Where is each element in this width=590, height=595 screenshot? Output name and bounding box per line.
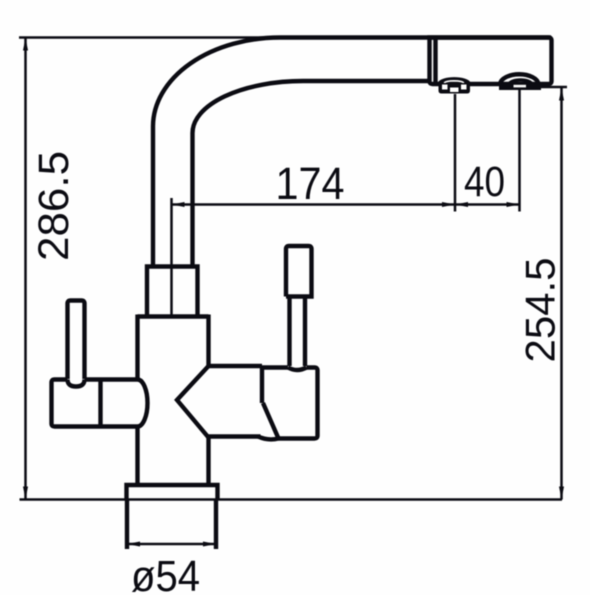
arrow 174 left — [172, 202, 185, 207]
left lever rounded tip notch — [68, 380, 85, 387]
spout inner profile: riser right edge, inner bend arc, spout underside line — [193, 81, 430, 267]
svg-text:254.5: 254.5 — [517, 258, 564, 363]
arrow 254.5 top (up) — [559, 88, 564, 101]
right handle neck notch arc — [288, 368, 307, 371]
right lever knob — [286, 246, 312, 297]
svg-text:174: 174 — [276, 158, 345, 209]
body column right edge (lower, below right handle) — [206, 437, 210, 486]
large aerator outer dome — [500, 74, 539, 84]
right handle connector bottom edge — [209, 434, 261, 438]
left lever handle stick — [68, 301, 85, 380]
large aerator base bar (filled) — [499, 84, 541, 91]
left handle rounded end cap arc — [138, 380, 148, 427]
mounting plane baseline — [20, 498, 563, 501]
dimension arrowheads — [23, 38, 564, 547]
left handle body block — [52, 380, 138, 427]
right top extension line from large aerator — [541, 86, 568, 89]
base flange — [127, 485, 218, 500]
arrow 40 right — [507, 202, 520, 207]
arrow o54 right — [203, 542, 216, 547]
collar below riser tube — [147, 267, 198, 316]
right handle base bottom-left arc — [258, 437, 279, 440]
dimension line 286.5 — [24, 38, 27, 500]
extension line from large aerator for 40 — [518, 90, 521, 212]
dimension line 254.5 — [560, 88, 563, 500]
body column right edge (upper, above right handle) — [206, 315, 210, 367]
right handle base piece outline — [262, 368, 318, 439]
right handle joint line — [260, 366, 264, 403]
threaded shank below mounting plane — [127, 500, 216, 549]
small aerator dome — [440, 79, 469, 83]
body top step — [138, 314, 209, 318]
dimension line 40 — [455, 203, 520, 206]
extension line from body centerline for 174 — [170, 198, 173, 316]
end cap joint line — [433, 38, 437, 84]
arrow 40 left — [455, 202, 468, 207]
arrow 286.5 top (up) — [23, 38, 28, 51]
arrow 174 right — [442, 202, 455, 207]
right handle connector top edge — [209, 364, 263, 368]
svg-text:286.5: 286.5 — [30, 151, 78, 261]
large aerator inner dome — [510, 80, 532, 84]
dimension line 174 — [172, 203, 456, 206]
arrow o54 left — [127, 542, 140, 547]
right handle tilt diagonal — [263, 403, 279, 439]
extension line from small aerator for 174/40 — [454, 94, 457, 212]
svg-text:ø54: ø54 — [131, 552, 200, 595]
small aerator brim (filled) — [439, 81, 471, 94]
arrow 286.5 bottom (down) — [23, 487, 28, 500]
left handle block divider — [98, 380, 102, 427]
dimension linework — [19, 38, 567, 545]
top extension line to left dimension — [19, 36, 282, 39]
spout outer profile: vertical riser left edge, outer bend arc, top line over spout and end cap — [153, 38, 551, 267]
spout end cap rectangle — [430, 38, 552, 85]
dimension line o54 — [127, 543, 216, 546]
svg-text:40: 40 — [464, 158, 505, 206]
body column left edge (upper, above left handle cap) — [135, 315, 139, 381]
right lever neck — [290, 297, 306, 367]
body column left edge (lower, below left handle cap) — [135, 426, 139, 486]
arrow 254.5 bottom (down) — [559, 487, 564, 500]
right handle connector chevron notch — [177, 366, 209, 438]
